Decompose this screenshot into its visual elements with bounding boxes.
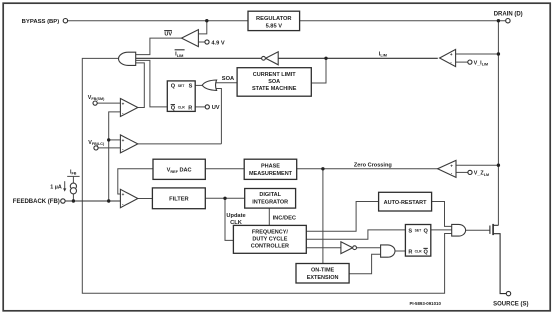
svg-text:UV: UV [212,105,220,111]
svg-text:INTEGRATOR: INTEGRATOR [252,200,288,206]
svg-text:PHASE: PHASE [261,164,280,170]
svg-text:Q: Q [171,84,176,90]
svg-text:Q: Q [423,249,428,255]
svg-text:INC/DEC: INC/DEC [273,215,296,221]
svg-text:+: + [122,101,125,106]
svg-text:+: + [122,138,125,143]
svg-text:SET: SET [178,84,186,88]
svg-text:PI-5893-091010: PI-5893-091010 [409,301,441,306]
svg-text:ILIM: ILIM [175,52,183,58]
svg-text:Update: Update [226,213,245,219]
svg-text:SOA: SOA [222,76,234,82]
svg-text:CLK: CLK [230,220,243,226]
svg-text:FREQUENCY/: FREQUENCY/ [252,229,289,235]
svg-text:+: + [122,192,125,197]
svg-text:S: S [189,84,193,90]
svg-text:STATE MACHINE: STATE MACHINE [252,86,297,92]
svg-text:R: R [188,106,192,112]
svg-text:CLR: CLR [178,106,186,110]
svg-text:ON-TIME: ON-TIME [311,267,335,273]
svg-text:SOA: SOA [268,79,280,85]
svg-text:+: + [450,52,453,57]
svg-text:UV: UV [164,32,172,38]
svg-text:5.85 V: 5.85 V [266,23,283,29]
svg-text:DUTY CYCLE: DUTY CYCLE [252,236,287,242]
svg-text:Q: Q [171,106,176,112]
svg-text:CLR: CLR [415,249,423,253]
svg-text:SET: SET [415,229,423,233]
svg-text:FEEDBACK (FB): FEEDBACK (FB) [13,199,60,205]
svg-text:Zero Crossing: Zero Crossing [354,163,393,169]
svg-text:SOURCE (S): SOURCE (S) [493,302,528,308]
svg-text:Q: Q [423,229,428,235]
svg-text:DIGITAL: DIGITAL [259,192,281,198]
svg-text:4.9 V: 4.9 V [211,40,224,46]
svg-text:AUTO-RESTART: AUTO-RESTART [384,200,428,206]
svg-text:BYPASS (BP): BYPASS (BP) [22,19,60,25]
svg-text:FILTER: FILTER [169,197,188,203]
svg-text:CONTROLLER: CONTROLLER [251,243,289,249]
svg-text:REGULATOR: REGULATOR [256,16,292,22]
svg-text:+: + [450,163,453,168]
svg-text:1 µA: 1 µA [50,185,62,191]
svg-text:CURRENT LIMIT: CURRENT LIMIT [253,72,296,78]
svg-text:DRAIN (D): DRAIN (D) [494,12,523,18]
svg-text:MEASUREMENT: MEASUREMENT [249,171,293,177]
svg-text:EXTENSION: EXTENSION [307,275,339,281]
svg-text:R: R [408,249,412,255]
svg-text:S: S [408,229,412,235]
